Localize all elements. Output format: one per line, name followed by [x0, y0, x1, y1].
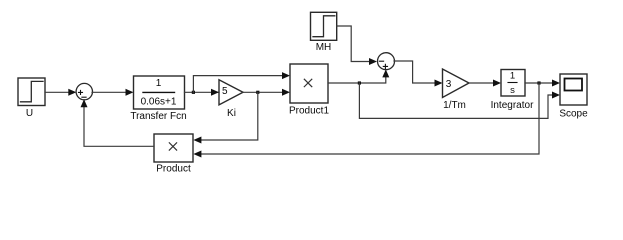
wire 1/Tm to Integrator [469, 80, 501, 87]
svg-text:5: 5 [222, 86, 228, 97]
node D junction on Integrator output [537, 81, 540, 84]
svg-text:1: 1 [510, 71, 515, 82]
svg-text:Product: Product [156, 164, 191, 175]
integrator block [501, 70, 525, 97]
gain 1/Tm [443, 69, 470, 98]
step source U [18, 78, 45, 106]
svg-text:MH: MH [316, 42, 332, 53]
scope block [560, 74, 587, 105]
svg-text:1/Tm: 1/Tm [443, 100, 466, 111]
svg-text:Integrator: Integrator [491, 100, 534, 111]
wire into gain Ki (arrowhead) [211, 89, 219, 96]
sum Sum2 [378, 53, 395, 70]
wire node D down to Product lower input [193, 83, 539, 158]
svg-text:Ki: Ki [227, 108, 236, 119]
product block Product1 [290, 64, 328, 103]
sum Sum1 [76, 83, 92, 99]
wire Product out to Sum1 bottom input [81, 99, 155, 146]
step source MH [311, 12, 337, 40]
wire Integrator to Scope top input [525, 80, 560, 87]
wire node B to Product1 lower input (arrowhead) [282, 89, 290, 96]
wire Sum1 to Transfer Fcn [92, 89, 134, 96]
wire MH to Sum2 [337, 26, 377, 65]
wire Sum2 to gain 1/Tm [394, 61, 443, 87]
svg-text:Scope: Scope [559, 109, 588, 120]
wire Product1 out to node C and up to Sum2 bottom [328, 69, 389, 83]
node A junction after Transfer Fcn [185, 91, 220, 94]
wire node C down and right to Scope lower input [359, 83, 560, 118]
svg-text:U: U [26, 108, 33, 119]
svg-text:0.06s+1: 0.06s+1 [141, 97, 177, 108]
svg-text:s: s [510, 85, 515, 96]
svg-text:1: 1 [156, 78, 162, 89]
gain Ki [219, 80, 243, 105]
transfer fcn block [134, 76, 185, 109]
wire U to Sum1 [45, 89, 76, 96]
svg-text:Product1: Product1 [289, 106, 329, 117]
wire node B down to Product top input [193, 92, 257, 143]
node B junction after Ki [243, 91, 283, 94]
product block Product [154, 134, 193, 162]
svg-text:Transfer Fcn: Transfer Fcn [130, 111, 186, 122]
svg-text:3: 3 [446, 79, 452, 90]
node C junction on Product1 output [358, 81, 361, 84]
wire node A to Product1 upper input [193, 72, 290, 92]
